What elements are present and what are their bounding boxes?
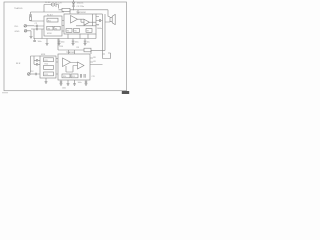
IC1 block B1 <box>47 26 53 30</box>
svg-text:R15: R15 <box>72 76 75 78</box>
svg-text:R10: R10 <box>60 46 63 48</box>
wire R9 to bracket <box>91 50 105 52</box>
wire IC3 to IC4 <box>56 59 58 75</box>
IC1 box <box>44 16 62 36</box>
cap C11b <box>34 60 40 65</box>
svg-text:R13: R13 <box>45 74 48 76</box>
svg-text:R12: R12 <box>45 64 48 66</box>
svg-text:GND: GND <box>15 31 20 33</box>
IC3 block C <box>44 72 54 76</box>
wire IC1 to IC2 <box>62 21 64 32</box>
IC2 pins right <box>96 17 100 25</box>
svg-text:C12: C12 <box>30 71 33 73</box>
wire shield <box>41 29 43 39</box>
IC1 block A <box>47 18 58 22</box>
wire battery rail <box>44 5 52 13</box>
svg-text:100u: 100u <box>78 82 82 84</box>
svg-text:100u: 100u <box>75 41 79 43</box>
cap C8 bus <box>33 39 36 42</box>
mid supply line <box>58 39 84 51</box>
IC4 sub box 2 <box>71 74 78 78</box>
IC1 block B2 <box>54 26 60 30</box>
svg-text:R6: R6 <box>74 31 76 33</box>
cap C3 <box>58 39 60 44</box>
ground pin2 <box>67 84 70 86</box>
fuse F1 <box>62 8 70 11</box>
IC3 block B <box>44 66 54 70</box>
wire A2 out <box>90 21 97 23</box>
ground pin3 <box>73 84 76 86</box>
ground C3 <box>58 44 61 46</box>
IC2 box <box>64 14 96 34</box>
cap C1 left chain <box>29 12 32 17</box>
svg-text:100n: 100n <box>61 41 65 43</box>
IC4 box <box>58 54 90 80</box>
IC2 sub box 2 <box>74 29 80 33</box>
ground C14 <box>85 84 88 86</box>
IC2 sub box 3 <box>86 29 92 33</box>
op-amp A1 <box>71 16 78 24</box>
svg-text:R5: R5 <box>67 31 69 33</box>
wire A1-A2 <box>78 19 85 22</box>
svg-text:1N4001: 1N4001 <box>77 3 85 5</box>
svg-text:S1 B1: S1 B1 <box>45 2 51 4</box>
cap C7 <box>100 19 103 22</box>
IC2 pins bottom <box>68 34 88 39</box>
IC4 pins right <box>90 58 103 65</box>
speaker LS1 <box>110 14 115 24</box>
border frame <box>4 2 127 91</box>
wire supply rail <box>59 10 109 17</box>
IC3 block A <box>44 58 54 62</box>
jack J1 <box>24 25 27 28</box>
potentiometer P1 <box>24 30 27 33</box>
ground C13 <box>60 84 63 86</box>
svg-text:R4: R4 <box>55 28 57 30</box>
svg-text:TDA2005M: TDA2005M <box>76 11 86 14</box>
wire hang line <box>96 13 103 15</box>
diode D1 <box>72 0 74 6</box>
jack J2 arrow <box>28 73 30 75</box>
IC3 box <box>40 56 56 78</box>
cap C4 <box>72 39 74 44</box>
cap C5 <box>84 39 86 44</box>
svg-text:100n: 100n <box>38 41 42 43</box>
cap C12 <box>35 73 40 76</box>
wire pot <box>27 29 37 36</box>
resistor R1 <box>29 17 31 21</box>
ground C4 <box>72 44 75 46</box>
ground IC3 <box>45 78 48 84</box>
node junction supply <box>73 9 74 10</box>
wire speaker top <box>105 17 110 23</box>
battery B1 <box>52 2 57 7</box>
cap C3in <box>37 28 45 31</box>
IC4 sub box 1 <box>62 74 70 78</box>
jack J2 <box>28 73 31 76</box>
ground C5 <box>84 44 87 46</box>
ground bus left <box>46 39 49 46</box>
wire bracket lower <box>103 53 111 59</box>
resistor R9 <box>84 48 91 52</box>
svg-text:R2 4k7: R2 4k7 <box>47 14 53 16</box>
wire input L <box>27 25 37 27</box>
svg-text:C9 220u: C9 220u <box>77 6 85 8</box>
IC2 sub box 1 <box>66 29 72 33</box>
wire feedback top <box>31 11 65 13</box>
wire mid to IC4 <box>69 50 92 54</box>
svg-text:R3: R3 <box>48 28 50 30</box>
svg-text:4558: 4558 <box>41 54 45 56</box>
corner mark <box>122 91 129 94</box>
svg-text:TDA2005: TDA2005 <box>14 7 23 10</box>
jack J1 arrow <box>24 25 26 27</box>
svg-text:C15: C15 <box>92 76 95 78</box>
switch S1 <box>56 5 59 9</box>
IC2 pins top <box>70 10 78 14</box>
svg-text:R7: R7 <box>87 31 89 33</box>
svg-text:R11: R11 <box>45 60 48 62</box>
svg-text:C7: C7 <box>97 25 99 27</box>
ground input <box>30 36 33 38</box>
cap C14 <box>85 81 87 84</box>
op-amp A3 <box>63 58 71 67</box>
op-amp A2 <box>84 19 90 25</box>
svg-text:IN R: IN R <box>16 63 21 65</box>
cap C2 <box>37 25 45 28</box>
svg-text:10u: 10u <box>87 41 90 43</box>
ground bus top <box>34 29 97 39</box>
wire inR <box>30 73 35 75</box>
capacitor C9 <box>72 6 74 10</box>
rail bottom left <box>31 56 41 73</box>
cap C15 bars <box>81 74 86 78</box>
IC2 divider <box>76 14 96 26</box>
wire right verticals <box>103 14 106 59</box>
wire internal <box>66 62 78 72</box>
svg-text:100n: 100n <box>62 87 66 89</box>
cap C13 <box>60 81 62 84</box>
wire R1 to IC1 <box>31 19 45 22</box>
svg-text:TDA2005: TDA2005 <box>66 51 76 54</box>
cap C11 <box>34 56 40 62</box>
op-amp A4 <box>78 62 85 69</box>
svg-text:1000u: 1000u <box>97 28 102 30</box>
pot arrow <box>25 30 27 32</box>
svg-text:+12V: +12V <box>57 2 62 4</box>
IC4 pins bottom <box>61 80 86 84</box>
footer dash <box>2 91 8 94</box>
svg-text:R14: R14 <box>63 76 66 78</box>
